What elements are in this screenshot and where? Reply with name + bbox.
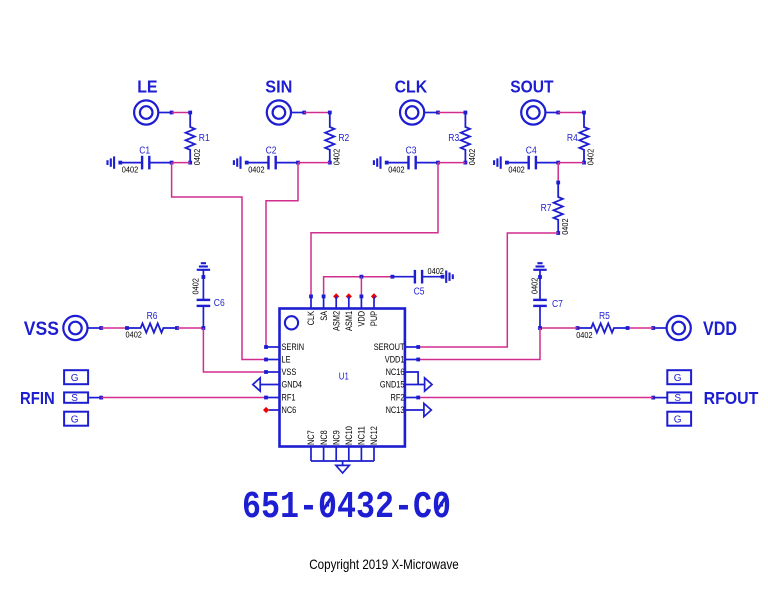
connector SIN: [267, 100, 291, 124]
ground C1: [113, 156, 115, 168]
wire C4 junction to R7: [557, 163, 559, 183]
node R1 bottom: [188, 161, 192, 165]
wire C3 right: [416, 162, 438, 164]
ground U1 flag: [336, 465, 349, 473]
wire bus to ground: [342, 461, 344, 465]
wire C7 ground: [539, 270, 541, 277]
svg-text:G: G: [71, 373, 79, 384]
wire pin NC9 stub: [335, 447, 337, 462]
svg-text:0402: 0402: [248, 165, 265, 175]
node pin SEROUT: [416, 345, 420, 349]
svg-text:GND15: GND15: [380, 380, 405, 390]
svg-text:ASM1: ASM1: [344, 311, 354, 331]
node C6 junction: [202, 326, 206, 330]
svg-text:0402: 0402: [529, 277, 539, 294]
resistor R6: [127, 323, 177, 332]
wire pin SA stub: [323, 296, 325, 308]
wire VSS to R6: [101, 327, 127, 329]
pad RFOUT G top: [667, 370, 691, 384]
node LE stub: [170, 111, 174, 115]
wire C2 junction to R2: [298, 162, 330, 164]
node R6 right: [175, 326, 179, 330]
wire pin NC6 stub: [269, 409, 280, 411]
wire pin NC8 stub: [323, 447, 325, 462]
svg-text:0402: 0402: [508, 165, 525, 175]
wire net RFOUT to pin RF2: [418, 397, 653, 399]
wire C1 left: [120, 162, 142, 164]
wire C1 right: [149, 162, 171, 164]
ground C2: [239, 156, 241, 168]
svg-text:C4: C4: [526, 145, 537, 156]
node C5 left: [391, 275, 395, 279]
wire SOUT connector stub: [545, 112, 558, 114]
wire VSS stub: [88, 327, 102, 329]
svg-text:0402: 0402: [192, 149, 202, 166]
resistor R5: [578, 323, 628, 332]
resistor R7: [554, 183, 563, 234]
op-amp U1 body: [280, 309, 405, 447]
wire C4 junction to R4: [558, 162, 584, 164]
svg-text:0402: 0402: [586, 149, 596, 166]
node C3 junction: [436, 161, 440, 165]
svg-text:CLK: CLK: [395, 77, 428, 97]
wire pin NC11 stub: [360, 447, 362, 462]
svg-text:C2: C2: [266, 145, 277, 156]
node pin SA: [322, 295, 326, 299]
svg-text:S: S: [71, 393, 78, 404]
svg-text:R7: R7: [541, 203, 552, 214]
wire pin NC12 stub: [373, 447, 375, 462]
node C2 junction: [296, 161, 300, 165]
svg-text:VDD: VDD: [703, 319, 737, 340]
svg-text:NC6: NC6: [282, 405, 297, 415]
svg-text:NC8: NC8: [319, 430, 329, 445]
svg-text:R5: R5: [599, 311, 610, 322]
wire net SA to C5: [324, 277, 393, 297]
wire pin VDD riser: [360, 277, 362, 297]
svg-text:Copyright 2019 X-Microwave: Copyright 2019 X-Microwave: [309, 556, 459, 572]
node C1 junction: [170, 161, 174, 165]
node R4 bottom: [582, 161, 586, 165]
wire net SIN to pin SERIN: [266, 163, 298, 347]
ground C5: [445, 271, 447, 283]
node pin RF1: [264, 396, 268, 400]
node VDD junction: [360, 275, 364, 279]
pad RFIN G bottom: [64, 412, 88, 426]
svg-text:0402: 0402: [560, 218, 570, 235]
wire pin RF1 stub: [266, 397, 280, 399]
node pin VDD: [360, 295, 364, 299]
node C6 ground: [202, 275, 206, 279]
svg-text:SEROUT: SEROUT: [374, 342, 405, 352]
wire pin LE stub: [266, 359, 280, 361]
wire SIN connector stub: [291, 112, 304, 114]
node C4 ground: [505, 161, 509, 165]
wire C7 lower: [539, 306, 541, 328]
no-connect NC6: [263, 407, 269, 413]
wire C7 upper: [539, 277, 541, 300]
node pin CLK: [309, 295, 313, 299]
wire SOUT to R4 top: [558, 112, 584, 114]
wire C4 left: [507, 162, 529, 164]
wire C6 ground: [202, 270, 204, 277]
node pin SERIN: [264, 345, 268, 349]
svg-text:0402: 0402: [467, 149, 477, 166]
node C4 junction: [556, 161, 560, 165]
wire pin GND15 stub: [405, 384, 425, 386]
wire RFIN stub: [89, 397, 101, 399]
capacitor C1: [141, 156, 143, 170]
wire bottom bus: [311, 460, 374, 462]
svg-text:C7: C7: [552, 299, 563, 310]
svg-text:R4: R4: [567, 133, 578, 144]
node R5 right: [626, 326, 630, 330]
svg-text:VSS: VSS: [282, 367, 297, 377]
ground C7: [533, 269, 546, 271]
node pin RF2: [416, 396, 420, 400]
pad RFOUT G bottom: [667, 412, 691, 426]
resistor R2: [325, 113, 334, 163]
wire pin VDD stub: [360, 296, 362, 308]
svg-text:NC7: NC7: [306, 430, 316, 445]
wire C5 right: [422, 276, 442, 278]
svg-text:NC9: NC9: [331, 430, 341, 445]
node R2 top: [328, 111, 332, 115]
svg-text:VSS: VSS: [24, 319, 59, 340]
wire CLK connector stub: [424, 112, 438, 114]
wire C3 left: [387, 162, 409, 164]
ground C3: [379, 156, 381, 168]
svg-text:0402: 0402: [191, 278, 201, 295]
node R1 top: [188, 111, 192, 115]
wire pin NC7 stub: [310, 447, 312, 462]
svg-text:C5: C5: [414, 287, 425, 298]
node R3 top: [464, 111, 468, 115]
svg-text:NC13: NC13: [386, 405, 405, 415]
svg-text:NC12: NC12: [369, 426, 379, 445]
svg-text:0402: 0402: [576, 330, 593, 340]
svg-text:G: G: [674, 373, 682, 384]
wire C3 junction to R3: [438, 162, 465, 164]
svg-text:SA: SA: [319, 311, 329, 321]
node R3 bottom: [464, 161, 468, 165]
wire net LE to pin LE: [172, 163, 266, 360]
wire C1 junction to R1: [172, 162, 191, 164]
node R6 left: [125, 326, 129, 330]
pad RFIN G top: [64, 370, 88, 384]
connector SOUT: [521, 100, 545, 124]
svg-text:SIN: SIN: [265, 77, 292, 97]
svg-text:SERIN: SERIN: [282, 342, 305, 352]
svg-text:GND4: GND4: [282, 380, 303, 390]
wire net VDD to pin VDD1: [418, 328, 540, 360]
svg-text:NC10: NC10: [344, 426, 354, 445]
svg-text:RFIN: RFIN: [20, 388, 55, 408]
wire pin NC10 stub: [348, 447, 350, 462]
node C7 ground: [538, 275, 542, 279]
wire pin NC16 stub: [405, 372, 418, 385]
svg-text:LE: LE: [282, 355, 291, 365]
wire pin GND4 stub: [260, 384, 279, 386]
wire pin RF2 stub: [405, 397, 418, 399]
ground C6: [197, 269, 210, 271]
svg-text:NC16: NC16: [386, 367, 405, 377]
svg-text:G: G: [674, 414, 682, 425]
capacitor C7: [533, 299, 547, 301]
wire C2 right: [276, 162, 298, 164]
node C3 ground: [385, 161, 389, 165]
wire VDD stub: [653, 327, 666, 329]
node R2 bottom: [328, 161, 332, 165]
wire pin NC13 stub: [405, 409, 424, 411]
svg-text:0402: 0402: [126, 329, 143, 339]
svg-text:ASM2: ASM2: [331, 311, 341, 331]
svg-text:651-0432-C0: 651-0432-C0: [242, 486, 451, 529]
node pin VDD1: [416, 358, 420, 362]
svg-text:RFOUT: RFOUT: [704, 388, 759, 408]
wire VDD to R5: [628, 327, 654, 329]
node RFIN stub: [99, 396, 103, 400]
wire net RFIN to pin RF1: [101, 397, 266, 399]
node C1 ground: [118, 161, 122, 165]
svg-text:C1: C1: [139, 145, 150, 156]
svg-text:RF1: RF1: [282, 393, 296, 403]
no-connect ASM1: [346, 293, 352, 299]
capacitor C4: [528, 156, 530, 170]
svg-text:CLK: CLK: [306, 311, 316, 325]
capacitor C6: [197, 299, 211, 301]
node VSS stub: [99, 326, 103, 330]
wire pin SERIN stub: [266, 346, 280, 348]
wire pin SEROUT stub: [405, 346, 418, 348]
wire net CLK to pin CLK: [311, 163, 438, 297]
svg-text:VDD: VDD: [357, 311, 367, 327]
svg-text:0402: 0402: [332, 149, 342, 166]
svg-text:G: G: [71, 414, 79, 425]
svg-text:PUP: PUP: [369, 311, 379, 326]
U1 pin1 mark: [285, 316, 298, 329]
no-connect ASM2: [333, 293, 339, 299]
svg-text:0402: 0402: [122, 165, 139, 175]
off-page GND4 arrow: [253, 378, 260, 391]
node VDD stub: [651, 326, 655, 330]
wire C5 left: [392, 276, 415, 278]
ground C4: [500, 156, 502, 168]
svg-text:LE: LE: [137, 77, 157, 97]
wire LE connector stub: [158, 112, 171, 114]
wire C2 left: [247, 162, 269, 164]
node C2 ground: [245, 161, 249, 165]
svg-text:C3: C3: [406, 145, 417, 156]
connector LE: [134, 100, 158, 124]
svg-text:VDD1: VDD1: [385, 355, 405, 365]
node pin VSS: [264, 370, 268, 374]
node R4 top: [582, 111, 586, 115]
node pin LE: [264, 358, 268, 362]
connector VSS: [63, 316, 87, 340]
wire pin ASM2 stub: [335, 296, 337, 308]
wire pin PUP stub: [373, 296, 375, 308]
capacitor C5: [414, 270, 416, 284]
svg-text:R6: R6: [147, 311, 158, 322]
wire CLK to R3 top: [438, 112, 465, 114]
pad RFOUT S: [667, 392, 691, 402]
wire R6 to C6: [177, 327, 203, 329]
svg-text:R3: R3: [448, 133, 459, 144]
off-page GND15 arrow: [425, 378, 432, 391]
svg-text:R1: R1: [199, 133, 210, 144]
svg-text:0402: 0402: [428, 266, 445, 276]
wire C4 right: [536, 162, 558, 164]
svg-text:C6: C6: [214, 298, 225, 309]
node RFOUT stub: [651, 396, 655, 400]
resistor R1: [186, 113, 195, 163]
wire net SOUT to pin SEROUT: [418, 233, 558, 347]
wire net VSS to pin VSS: [203, 328, 266, 372]
resistor R3: [461, 113, 470, 163]
off-page NC13 arrow: [424, 403, 431, 416]
wire pin ASM1 stub: [348, 296, 350, 308]
wire pin VDD1 stub: [405, 359, 418, 361]
resistor R4: [579, 113, 588, 163]
wire C6 lower: [202, 306, 204, 328]
wire C6 upper: [202, 277, 204, 300]
title zero slashes: [324, 498, 446, 510]
svg-text:RF2: RF2: [391, 393, 405, 403]
node C5 right: [441, 275, 445, 279]
wire R5 to C7: [540, 327, 578, 329]
svg-text:R2: R2: [338, 133, 349, 144]
connector CLK: [400, 100, 424, 124]
node R5 left: [576, 326, 580, 330]
svg-text:S: S: [674, 393, 681, 404]
wire pin VSS stub: [266, 371, 280, 373]
wire LE to R1 top: [172, 112, 191, 114]
node R7 bottom: [556, 231, 560, 235]
svg-text:0402: 0402: [388, 165, 405, 175]
node SIN stub: [302, 111, 306, 115]
node C7 junction: [538, 326, 542, 330]
no-connect PUP: [371, 293, 377, 299]
svg-text:U1: U1: [339, 372, 349, 383]
pad RFIN S: [64, 392, 88, 402]
svg-text:SOUT: SOUT: [510, 77, 554, 97]
capacitor C3: [407, 156, 409, 170]
wire pin CLK stub: [310, 296, 312, 308]
node R7 top: [556, 181, 560, 185]
wire RFOUT stub: [653, 397, 667, 399]
node SOUT stub: [556, 111, 560, 115]
connector VDD: [667, 316, 691, 340]
svg-text:NC11: NC11: [357, 426, 367, 445]
capacitor C2: [267, 156, 269, 170]
wire SIN to R2 top: [304, 112, 330, 114]
node CLK stub: [436, 111, 440, 115]
